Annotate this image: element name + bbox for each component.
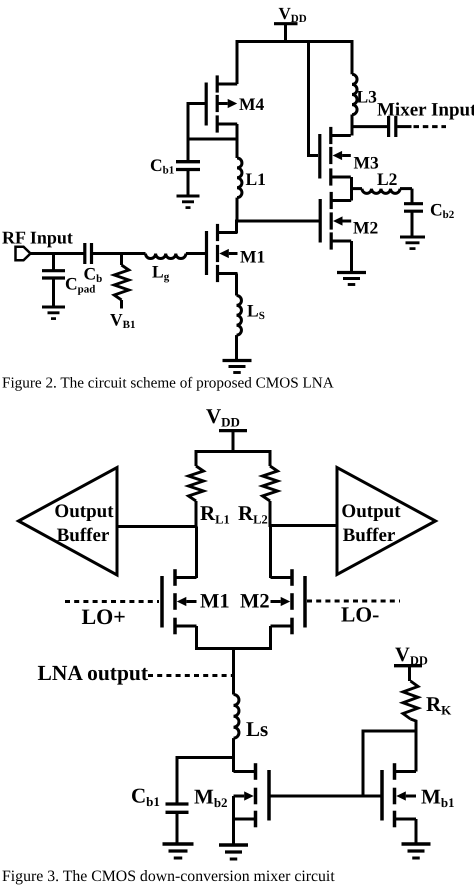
wire Ls node to Cb1 branch	[177, 758, 234, 803]
svg-text:Buffer: Buffer	[343, 525, 396, 546]
svg-text:Mixer Input: Mixer Input	[377, 100, 474, 121]
wire M2 source to ground	[350, 241, 353, 271]
svg-text:M2: M2	[353, 218, 378, 238]
svg-text:LNA output: LNA output	[38, 661, 149, 685]
wire Cb to Lg	[93, 252, 146, 255]
inductor Ls (mixer)	[234, 695, 239, 758]
capacitor Cb2	[404, 204, 423, 237]
wire M4 gate tie to source node	[188, 104, 237, 140]
wire common source join	[197, 626, 271, 649]
resistor RL2	[263, 466, 278, 527]
resistor RK	[403, 681, 418, 772]
wire Mb1 source to ground	[415, 819, 418, 843]
ground under Cb1 (LNA)	[177, 194, 200, 197]
svg-text:L3: L3	[357, 87, 378, 107]
transistor Mb1	[382, 763, 416, 827]
transistor M4	[206, 75, 237, 132]
wire VDD rail (mixer)	[196, 452, 270, 467]
svg-text:L1: L1	[246, 169, 266, 189]
transistor M1 (LNA)	[207, 224, 238, 282]
ground under Mb1	[402, 842, 431, 845]
wire tail node down	[232, 649, 235, 695]
wire RL1 to M1 drain	[195, 527, 198, 579]
power VDD (mixer right)	[394, 644, 428, 681]
capacitor Cpad	[42, 254, 65, 306]
ground under Ls (LNA)	[223, 359, 252, 362]
svg-text:M2: M2	[240, 591, 270, 613]
wire M1 drain to M2 gate	[237, 221, 320, 233]
dashed LNA output line	[148, 674, 232, 677]
inductor L1	[237, 139, 242, 221]
dashed LO- line	[307, 600, 400, 603]
ground under Cpad	[42, 305, 65, 308]
wire RL2 to M2 drain	[269, 526, 272, 579]
svg-text:L2: L2	[377, 169, 397, 189]
inductor L2	[352, 189, 413, 203]
transistor M1 (mixer)	[162, 569, 197, 634]
dashed LO+ line	[65, 600, 159, 603]
svg-text:LO-: LO-	[341, 603, 379, 627]
wire VDD rail (LNA)	[237, 42, 352, 85]
power VDD (LNA)	[274, 4, 307, 42]
gate line Mb2 to Mb1	[270, 795, 382, 798]
capacitor Cb1 (LNA)	[176, 139, 200, 195]
wire RF input to Cb	[31, 252, 84, 255]
capacitor Cb (series)	[85, 243, 92, 264]
resistor VB1 bias	[114, 254, 129, 309]
inductor L3	[352, 42, 357, 136]
wire after coupling cap	[397, 125, 411, 128]
svg-text:M1: M1	[240, 247, 265, 267]
ground under M2	[337, 271, 366, 274]
dashed continuation to mixer	[414, 125, 447, 128]
wire RL2 node to right buffer	[270, 524, 337, 527]
svg-text:M3: M3	[354, 153, 380, 173]
wire RK node to Mb1 gate	[363, 731, 416, 796]
transistor M2 (mixer)	[271, 569, 306, 634]
power VDD (mixer top)	[206, 404, 247, 452]
inductor Lg	[146, 254, 186, 259]
transistor M2 (LNA)	[320, 192, 351, 250]
svg-text:LO+: LO+	[82, 604, 126, 629]
output buffer right	[337, 468, 436, 575]
wire M1 source to Ls	[235, 274, 238, 296]
svg-text:Buffer: Buffer	[57, 525, 110, 546]
output buffer left	[19, 468, 118, 576]
wire mixer-input node	[352, 125, 387, 128]
svg-text:Figure 3. The CMOS down-conver: Figure 3. The CMOS down-conversion mixer…	[2, 868, 335, 885]
ground under Cb1 (mixer)	[163, 842, 194, 845]
wire RL1 node to left buffer	[117, 525, 196, 528]
ground under Mb2	[219, 843, 248, 846]
wire M3 source / M2 drain junction	[350, 177, 353, 201]
svg-text:RF Input: RF Input	[2, 228, 73, 248]
svg-text:M4: M4	[239, 94, 265, 114]
ground under Cb2	[400, 235, 425, 238]
capacitor Cb1 (mixer)	[166, 804, 189, 843]
svg-text:Ls: Ls	[246, 717, 268, 741]
RF input port symbol	[16, 247, 31, 261]
transistor M3	[320, 127, 351, 186]
capacitor mixer coupling	[389, 116, 396, 137]
transistor Mb2	[234, 763, 270, 827]
wire M3 gate feed from VDD rail	[309, 42, 319, 156]
wire Lg to M1 gate	[186, 252, 206, 255]
wire Mb2 bulk/source to ground	[232, 796, 235, 844]
svg-text:Figure 2. The circuit scheme o: Figure 2. The circuit scheme of proposed…	[2, 375, 334, 392]
svg-text:Output: Output	[54, 501, 114, 522]
inductor Ls (LNA)	[237, 296, 242, 360]
resistor RL1	[189, 466, 204, 527]
svg-text:M1: M1	[200, 591, 230, 613]
svg-text:Output: Output	[341, 501, 401, 522]
